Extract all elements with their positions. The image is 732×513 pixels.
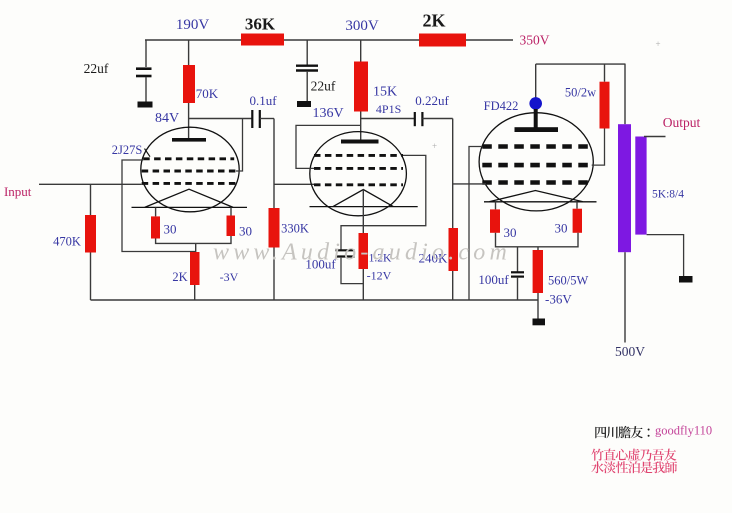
resistor R3 30 [151,216,160,238]
label -3V [220,270,239,284]
wire [156,236,231,243]
ground [679,276,693,283]
label 100uf [478,272,509,287]
svg-text:70K: 70K [196,86,219,101]
wire [537,293,539,319]
wire [592,129,605,166]
transformer T1 secondary [635,137,646,235]
svg-text:36K: 36K [245,15,276,34]
label 36K [245,15,276,34]
wire [452,119,454,229]
tube V1 envelope [141,127,239,212]
wire [195,243,197,252]
wire [466,39,513,41]
svg-text:22uf: 22uf [311,79,336,94]
svg-text:560/5W: 560/5W [548,274,588,288]
svg-text:+: + [432,141,437,151]
wire anode to C3 [189,118,252,120]
ground [138,102,153,108]
svg-text:50/2w: 50/2w [565,86,596,100]
svg-text:100uf: 100uf [478,272,509,287]
svg-text:2J27S: 2J27S [112,143,143,157]
label 4P1S [376,102,401,116]
label 22uf [311,79,336,94]
wire [145,39,241,41]
grid g3 row V1 [143,157,234,160]
label Output [663,115,701,130]
svg-text:FD422: FD422 [484,99,519,113]
svg-text:Output: Output [663,115,701,130]
wire [362,269,364,300]
grid g2 row V1 [142,170,237,173]
resistor R7 15K [354,62,368,112]
label 15K [373,85,397,100]
svg-text:5K:8/4: 5K:8/4 [652,189,684,201]
artifact plus [432,141,437,151]
label 190V [176,17,210,33]
wire output [644,136,666,138]
transformer T1 primary [618,124,631,252]
wire g3 feedback V1 [122,160,196,252]
svg-text:15K: 15K [373,85,397,100]
label author [595,426,649,438]
label 330K [281,222,309,236]
label 50/2w [565,86,596,100]
label -12V [367,269,392,283]
grid g1 row V2 [314,183,403,186]
grid g1 row V1 [142,182,236,185]
svg-text:30: 30 [555,221,568,236]
capacitor C1 22uf [136,69,152,76]
wire grid V2 [274,183,314,185]
wire [90,184,92,215]
wire [145,40,147,67]
resistor 36K [241,34,284,46]
label 500V [615,344,645,359]
resistor R14 560/5W [533,250,543,293]
cathode V3 [484,191,597,202]
ground [533,319,546,326]
label 5K:8/4 [652,189,684,201]
svg-text:470K: 470K [53,235,81,249]
grid g3 row V2 [314,154,403,157]
label 2K [172,270,187,284]
resistor R13 30 [573,209,582,233]
wire [517,247,519,272]
wire [188,40,190,65]
wire [495,202,497,210]
label FD422 [484,99,519,113]
node plate terminal [529,97,542,110]
grid g3 row V3 [482,144,591,149]
cathode V2 [310,190,418,207]
ground [297,101,311,107]
resistor R6 2K [190,252,200,285]
capacitor C6 100uf [511,272,524,276]
anode plate V2 [341,140,379,144]
svg-text:4P1S: 4P1S [376,102,401,116]
label 560/5W [548,274,588,288]
tube V2 envelope [310,132,407,216]
wire g3 tie V2 [341,155,426,249]
wire [647,235,684,276]
label 0.22uf [415,93,449,108]
wire [341,258,363,284]
label 30 [239,224,252,239]
wire anode to C5 [361,118,415,120]
label -36V [545,292,572,307]
wire [537,247,539,250]
svg-text:350V: 350V [520,33,550,48]
wire [260,118,274,120]
grid g1 row V3 [482,180,591,185]
wire [306,40,308,65]
grid g2 row V3 [482,163,591,168]
label 2J27S [112,143,143,157]
wire plate stem V3 [534,109,538,128]
label 300V [345,18,379,34]
svg-text:500V: 500V [615,344,645,359]
label 84V [155,111,179,126]
anode plate V1 [172,138,206,142]
resistor R9 1.2K [359,233,369,269]
svg-text:30: 30 [239,224,252,239]
capacitor C3 0.1uf [252,110,259,128]
wire [155,207,157,216]
svg-text:-3V: -3V [220,270,239,284]
cathode V1 [132,189,248,207]
wire [624,252,626,342]
wire [576,202,578,209]
svg-text:0.22uf: 0.22uf [415,93,449,108]
capacitor C4 100uf [336,250,355,256]
tube V3 envelope [479,113,593,211]
wire [604,64,606,82]
resistor R5 330K [269,208,280,248]
wire [230,207,232,215]
label 1.2K [369,253,392,265]
label 2K [422,11,445,31]
svg-text:22uf: 22uf [84,61,109,76]
grid g2 row V2 [314,167,403,170]
svg-text:-36V: -36V [545,292,572,307]
resistor R12 30 [490,209,500,232]
wire [624,64,626,124]
label 100uf [305,257,336,272]
capacitor C2 22uf [296,66,318,71]
wire [188,103,190,138]
wire g2 box V2 [296,125,361,168]
artifact plus [655,39,660,49]
wire [517,277,519,300]
watermark [213,240,511,266]
wire ground bus [91,299,539,301]
label 0.1uf [249,93,277,108]
svg-text:www.Audio-audio.com: www.Audio-audio.com [213,240,511,266]
label motto line 2 [591,461,677,473]
svg-text:300V: 300V [345,18,379,34]
wire [306,71,308,101]
svg-text:2K: 2K [172,270,187,284]
svg-text:-12V: -12V [367,269,392,283]
label 350V [520,33,550,48]
wire [422,118,452,120]
svg-text:30: 30 [504,225,517,240]
wire [273,119,275,210]
svg-text:190V: 190V [176,17,210,33]
svg-text:84V: 84V [155,111,179,126]
resistor 2K [419,34,466,47]
wire [284,39,419,41]
wire [360,112,362,140]
label 136V [312,106,343,121]
resistor R10 240K [449,228,459,271]
svg-text:136V: 136V [312,106,343,121]
wire [194,285,196,300]
wire g3-ground V3 [469,147,482,301]
wire [145,77,147,102]
label 70K [196,86,219,101]
wire [360,40,362,62]
wire [496,233,579,247]
wire grid V3 [453,183,486,185]
wire [535,64,537,98]
label motto line 1 [591,449,676,461]
wire [452,271,454,300]
svg-text:2K: 2K [422,11,445,31]
label 30 [164,222,177,237]
label Input [4,184,32,199]
label 470K [53,235,81,249]
wire g2-anode tie [236,119,243,172]
resistor R11 50/2w [600,82,610,129]
wire input [39,183,142,185]
svg-text:goodfly110: goodfly110 [655,424,712,438]
label 22uf [84,61,109,76]
resistor R4 30 [227,216,236,237]
wire [90,253,92,301]
wire plate top [536,63,626,65]
capacitor C5 0.22uf [415,112,423,126]
label 30 [504,225,517,240]
resistor R2 70K [183,65,195,103]
anode plate V3 [515,127,559,132]
svg-text:Input: Input [4,184,32,199]
label 30 [555,221,568,236]
svg-text:330K: 330K [281,222,309,236]
resistor R1 470K [85,215,96,253]
label 240K [419,251,449,266]
svg-text:+: + [655,39,660,49]
leader line [145,149,151,157]
wire [273,248,275,301]
svg-text:0.1uf: 0.1uf [249,93,277,108]
svg-text:30: 30 [164,222,177,237]
label goodfly110 [655,424,712,438]
wire cathode V2 [362,190,364,234]
